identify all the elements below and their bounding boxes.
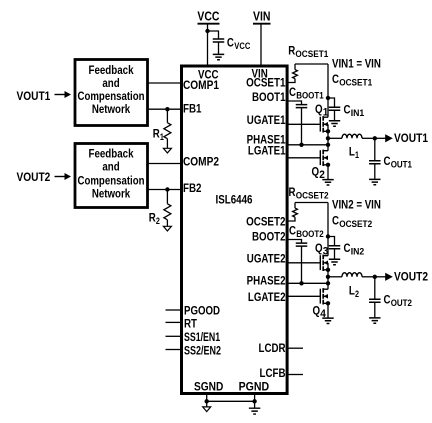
svg-text:BOOT2: BOOT2	[296, 229, 324, 240]
svg-text:LCDR: LCDR	[259, 341, 286, 355]
label COCSET1	[332, 72, 373, 89]
svg-text:Q: Q	[315, 102, 323, 116]
node FB2 junction	[165, 187, 169, 191]
wire CBOOT1 to PHASE1	[301, 108, 303, 145]
node Q2 source junction	[326, 163, 330, 167]
ground under CIN1	[329, 121, 340, 126]
svg-text:C: C	[289, 85, 296, 99]
resistor R2	[149, 190, 171, 228]
svg-text:OUT2: OUT2	[391, 298, 412, 309]
svg-text:SS2/EN2: SS2/EN2	[184, 343, 221, 357]
svg-text:COMP1: COMP1	[183, 78, 219, 92]
svg-text:VCC: VCC	[197, 9, 219, 24]
svg-text:OCSET1: OCSET1	[246, 76, 286, 90]
node CBOOT1/PHASE1 junction	[299, 143, 303, 147]
wire COUT2 to ground	[374, 302, 376, 317]
wire VIN2 vertical	[327, 203, 329, 256]
svg-text:VOUT2: VOUT2	[394, 269, 428, 283]
node VCC junction	[205, 29, 209, 33]
node FB1 junction	[165, 107, 169, 111]
svg-text:C: C	[344, 103, 351, 117]
wire LGATE2	[288, 295, 320, 297]
svg-text:L: L	[349, 284, 355, 298]
svg-text:LCFB: LCFB	[260, 366, 286, 380]
IC body ISL6446	[182, 66, 288, 394]
transistor Q4	[313, 288, 329, 320]
svg-text:ISL6446: ISL6446	[216, 193, 253, 207]
wire phase to L2	[328, 276, 342, 278]
wire BOOT1	[288, 101, 302, 105]
node VOUT2 junction	[373, 275, 377, 279]
svg-text:and: and	[102, 160, 119, 174]
wire VCC to CVCC	[208, 31, 219, 39]
power ground under PGND	[249, 408, 260, 414]
capacitor COUT2	[369, 277, 412, 309]
svg-text:Q: Q	[313, 304, 321, 318]
wire CBOOT2 to PHASE2	[301, 246, 303, 283]
svg-text:PGOOD: PGOOD	[184, 304, 220, 318]
svg-text:Feedback: Feedback	[89, 63, 134, 77]
wire SGND down	[206, 401, 208, 407]
svg-text:OCSET2: OCSET2	[246, 215, 286, 229]
svg-text:VIN1 = VIN: VIN1 = VIN	[332, 57, 381, 71]
svg-text:BOOT2: BOOT2	[252, 230, 286, 244]
resistor R1	[153, 109, 171, 148]
wire VIN1 to CIN1	[328, 98, 335, 107]
wire VIN1 vertical	[327, 64, 329, 117]
wire PHASE1	[288, 144, 328, 146]
svg-text:C: C	[384, 293, 391, 307]
capacitor CVCC	[213, 36, 251, 53]
svg-text:VCC: VCC	[234, 41, 250, 52]
svg-text:L: L	[349, 145, 355, 159]
svg-text:BOOT1: BOOT1	[296, 91, 324, 102]
svg-text:FB2: FB2	[183, 181, 202, 195]
svg-text:C: C	[227, 36, 234, 50]
node PGND junction	[252, 399, 256, 403]
wire COMP1	[148, 82, 181, 84]
ground under CVCC	[213, 54, 224, 59]
wire CIN2 to ground	[334, 249, 336, 259]
ground under COUT2	[369, 318, 380, 323]
svg-text:C: C	[332, 72, 339, 86]
svg-text:Compensation: Compensation	[78, 89, 145, 103]
svg-text:VOUT1: VOUT1	[394, 131, 428, 145]
node VIN2 junction	[326, 234, 330, 238]
wire PHASE2	[288, 282, 328, 284]
node SGND junction	[205, 399, 209, 403]
signal ground triangle under SGND	[203, 407, 211, 412]
node VOUT1 junction	[373, 136, 377, 140]
VIN supply rail	[253, 9, 271, 66]
svg-text:1: 1	[323, 107, 329, 119]
wire LCFB stub	[288, 374, 303, 376]
svg-text:C: C	[289, 224, 296, 238]
wire COMP2	[148, 163, 181, 165]
wire SGND stub	[206, 394, 208, 402]
wire UGATE2	[288, 262, 320, 264]
svg-text:VOUT2: VOUT2	[17, 170, 51, 184]
svg-text:OCSET2: OCSET2	[339, 219, 372, 230]
svg-text:1: 1	[355, 150, 360, 161]
svg-text:BOOT1: BOOT1	[252, 90, 286, 104]
svg-text:SGND: SGND	[194, 379, 224, 393]
transistor Q1	[315, 102, 328, 133]
svg-text:COMP2: COMP2	[183, 155, 219, 169]
wire CIN1 to ground	[334, 110, 336, 120]
svg-text:LGATE2: LGATE2	[248, 290, 286, 304]
node CBOOT2/PHASE2 junction	[299, 281, 303, 285]
wire phase to L1	[328, 137, 342, 139]
resistor ROCSET1	[288, 44, 329, 83]
wire LCDR stub	[288, 347, 303, 349]
wire COUT1 to ground	[374, 164, 376, 179]
wire to VOUT2 arrow	[375, 276, 386, 278]
svg-text:SS1/EN1: SS1/EN1	[184, 330, 220, 344]
svg-text:C: C	[344, 241, 351, 255]
node Q1 source junction	[326, 129, 330, 133]
wire BOOT2	[288, 240, 302, 244]
wire PGOOD stub	[166, 309, 181, 311]
resistor ROCSET2	[288, 185, 329, 221]
node PHASE1 junction	[326, 143, 330, 147]
ground under Q4	[322, 318, 333, 323]
wire UGATE1	[288, 123, 320, 125]
feedback network box 2	[75, 144, 148, 208]
wire Q4 source to ground	[327, 303, 329, 317]
svg-text:R: R	[289, 185, 296, 199]
wire L1 to VOUT1	[362, 137, 375, 139]
capacitor CIN1	[329, 103, 365, 120]
wire RT stub	[166, 321, 181, 323]
svg-text:UGATE2: UGATE2	[247, 252, 286, 266]
svg-text:2: 2	[156, 216, 160, 227]
wire ROCSET1 to VIN1	[295, 63, 328, 65]
svg-text:LGATE1: LGATE1	[248, 144, 286, 158]
wire L2 to VOUT2	[362, 276, 375, 278]
svg-text:VIN2 = VIN: VIN2 = VIN	[332, 198, 381, 212]
VCC supply rail	[197, 9, 219, 66]
svg-text:2: 2	[355, 289, 359, 300]
wire FB2	[148, 189, 181, 191]
capacitor CBOOT1	[289, 85, 324, 108]
capacitor CBOOT2	[289, 224, 324, 247]
wire Q1 body-source-phase	[327, 124, 329, 151]
svg-text:UGATE1: UGATE1	[247, 113, 286, 127]
ground under CIN2	[329, 259, 340, 264]
svg-text:VIN: VIN	[253, 9, 271, 24]
label COCSET2	[332, 213, 372, 230]
transistor Q2	[312, 150, 329, 182]
arrow VOUT1 into box 1	[55, 91, 72, 98]
svg-text:FB1: FB1	[183, 102, 202, 116]
arrow VOUT1	[385, 134, 393, 142]
inductor L1	[342, 134, 362, 161]
wire Q2 source to ground	[327, 165, 329, 179]
svg-text:VOUT1: VOUT1	[17, 89, 51, 103]
arrow VOUT2 into box 2	[55, 173, 72, 180]
wire SS2/EN2 stub	[166, 349, 181, 351]
arrow VOUT2	[385, 273, 393, 281]
wire LGATE1	[288, 157, 320, 159]
svg-text:OCSET2: OCSET2	[296, 191, 329, 202]
svg-text:and: and	[102, 76, 119, 90]
arrow below R1	[163, 148, 171, 153]
svg-text:OCSET1: OCSET1	[295, 49, 329, 60]
svg-text:C: C	[384, 154, 391, 168]
svg-text:Q: Q	[312, 165, 320, 179]
svg-text:IN1: IN1	[351, 108, 365, 119]
ground under Q2	[322, 180, 333, 185]
svg-text:Network: Network	[92, 187, 131, 201]
capacitor COUT1	[369, 138, 413, 170]
svg-text:Q: Q	[315, 241, 323, 255]
svg-text:PGND: PGND	[239, 379, 270, 393]
svg-text:IN2: IN2	[351, 247, 365, 258]
svg-text:PHASE2: PHASE2	[247, 274, 286, 288]
svg-text:OUT1: OUT1	[391, 160, 413, 171]
svg-text:3: 3	[323, 246, 329, 258]
node Q4 source junction	[326, 301, 330, 305]
svg-text:C: C	[332, 213, 339, 227]
feedback network box 1	[75, 60, 148, 126]
wire CVCC to ground	[218, 42, 220, 54]
wire FB1	[148, 108, 181, 110]
svg-text:R: R	[288, 44, 295, 58]
svg-text:RT: RT	[184, 317, 198, 331]
node L2 branch junction	[326, 275, 330, 279]
arrow below R2	[163, 226, 171, 231]
svg-text:Feedback: Feedback	[89, 146, 134, 160]
transistor Q3	[315, 241, 328, 271]
ground under COUT1	[369, 179, 380, 184]
node L1 branch junction	[326, 136, 330, 140]
node Q3 source junction	[326, 268, 330, 272]
node VIN1 junction	[326, 96, 330, 100]
wire to VOUT1 arrow	[375, 137, 386, 139]
wire Q3 body-source-phase	[327, 263, 329, 290]
svg-text:1: 1	[160, 132, 165, 143]
wire PGND down	[254, 394, 256, 409]
svg-text:Network: Network	[92, 102, 131, 116]
wire SS1/EN1 stub	[166, 335, 181, 337]
wire ROCSET2 to VIN2	[295, 202, 328, 204]
node PHASE2 junction	[326, 281, 330, 285]
svg-text:OCSET1: OCSET1	[339, 78, 373, 89]
wire VIN2 to CIN2	[328, 237, 335, 246]
capacitor CIN2	[329, 241, 364, 258]
svg-text:Compensation: Compensation	[78, 173, 145, 187]
wire SGND to PGND	[207, 400, 255, 402]
inductor L2	[342, 273, 362, 300]
